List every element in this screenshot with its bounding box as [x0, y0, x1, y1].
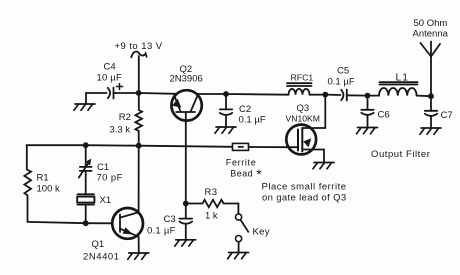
capacitor C4	[108, 84, 123, 99]
svg-text:10 µF: 10 µF	[97, 72, 122, 83]
label RFC1	[291, 73, 314, 83]
node E antenna junction	[428, 93, 434, 99]
resistor R3	[186, 200, 239, 207]
svg-text:0.1 µF: 0.1 µF	[147, 226, 176, 237]
wire Q2 base down	[185, 112, 187, 204]
wire osc loop bottom	[28, 222, 86, 223]
ground under C3	[175, 240, 196, 246]
label R2 value	[110, 112, 131, 136]
svg-text:2N4401: 2N4401	[83, 251, 120, 262]
svg-text:Ferrite: Ferrite	[226, 158, 257, 168]
ground under key	[228, 253, 249, 259]
node A supply junction	[136, 90, 142, 96]
resistor R2	[135, 93, 142, 146]
svg-text:C2: C2	[239, 104, 251, 115]
label +9 to 13 V	[115, 41, 163, 52]
node G keying junction	[183, 201, 189, 207]
svg-text:X1: X1	[100, 195, 112, 206]
node B	[223, 91, 229, 97]
node F keyline junction	[136, 143, 142, 149]
ground under C2	[215, 127, 236, 133]
wire osc loop top left	[27, 144, 86, 146]
svg-text:R2: R2	[119, 112, 131, 123]
inductor RFC1	[287, 83, 312, 95]
wire node D to L1	[368, 95, 380, 97]
label L1	[396, 72, 409, 83]
wire C4 to node A	[114, 92, 139, 94]
inductor L1	[379, 82, 418, 95]
wire node I to Q1 base	[86, 222, 113, 224]
svg-text:C5: C5	[337, 66, 349, 77]
crystal X1	[77, 194, 94, 222]
label C5 value	[328, 66, 355, 88]
capacitor C2	[220, 94, 232, 127]
node D	[365, 93, 371, 99]
svg-text:50 Ohm: 50 Ohm	[414, 18, 448, 29]
ground G1 left input	[74, 93, 95, 110]
label C2 value	[239, 104, 266, 126]
svg-text:C3: C3	[164, 214, 176, 225]
label X1	[100, 195, 112, 206]
capacitor C6	[361, 96, 373, 128]
svg-text:C7: C7	[441, 110, 453, 121]
label Q2 2N3906	[170, 64, 203, 85]
node H osc top junction	[83, 142, 89, 148]
capacitor C1 variable	[79, 145, 92, 194]
svg-text:Q1: Q1	[92, 239, 105, 250]
antenna 50 Ohm	[421, 42, 441, 97]
svg-text:R1: R1	[37, 172, 49, 183]
ground under Q1	[128, 253, 149, 259]
wire node C to C5	[325, 94, 340, 96]
label C4 value	[97, 62, 122, 84]
label C1 value	[97, 162, 123, 184]
capacitor C5	[341, 90, 347, 101]
ground under Q3 source	[313, 163, 334, 169]
resistor R1	[24, 145, 31, 222]
switch Key	[236, 214, 249, 253]
svg-text:C6: C6	[378, 110, 390, 121]
capacitor C3	[180, 204, 193, 240]
wire Q1 collector up to node F	[138, 146, 140, 213]
label Ferrite Bead	[226, 158, 262, 182]
wire Q2 collector to node B	[198, 93, 227, 95]
svg-text:+9 to 13 V: +9 to 13 V	[115, 41, 163, 52]
svg-text:Place small ferrite: Place small ferrite	[262, 181, 347, 192]
svg-text:RFC1: RFC1	[291, 73, 314, 83]
svg-text:2N3906: 2N3906	[170, 74, 203, 85]
label Output Filter	[371, 149, 430, 160]
ferrite bead	[233, 143, 249, 150]
svg-text:1 k: 1 k	[205, 211, 218, 222]
label C7	[441, 110, 453, 121]
wire node A to Q2 emitter	[139, 92, 176, 95]
svg-text:0.1 µF: 0.1 µF	[328, 77, 355, 88]
wire ground to C4	[86, 92, 107, 94]
svg-text:L1: L1	[396, 72, 409, 83]
ground under C6	[357, 128, 378, 134]
label R3 value	[205, 187, 218, 222]
wire node B to RFC1	[226, 93, 289, 96]
svg-text:R3: R3	[205, 187, 218, 198]
svg-text:C4: C4	[104, 62, 116, 73]
svg-text:Bead: Bead	[230, 169, 253, 179]
wire RFC1 to node C	[310, 94, 326, 96]
transistor Q2	[171, 90, 201, 120]
label R1 value	[37, 172, 60, 194]
svg-text:*: *	[256, 166, 262, 182]
label C6	[378, 110, 390, 121]
supply line +9 to 13 V	[131, 52, 146, 93]
svg-text:70 pF: 70 pF	[97, 173, 123, 184]
svg-text:0.1 µF: 0.1 µF	[239, 114, 266, 125]
wire R3 to key	[237, 204, 239, 214]
ground under C7	[420, 128, 441, 134]
capacitor C7	[425, 96, 437, 128]
svg-text:3.3 k: 3.3 k	[110, 125, 131, 136]
node C drain junction	[322, 92, 328, 98]
label Q1 2N4401	[83, 239, 120, 262]
svg-text:Output Filter: Output Filter	[371, 149, 430, 160]
wire L1 to node E	[417, 95, 431, 98]
svg-text:VN10KM: VN10KM	[286, 114, 320, 124]
label placement note	[262, 181, 347, 203]
wire node F to ferrite bead	[139, 146, 233, 147]
transistor Q3 VN10KM mosfet	[286, 95, 325, 163]
label Key	[253, 226, 270, 237]
transistor Q1	[112, 208, 143, 239]
label 50 Ohm Antenna	[413, 18, 449, 40]
wire Q1 emitter to ground	[138, 237, 140, 253]
svg-text:Q3: Q3	[297, 103, 310, 114]
svg-text:Antenna: Antenna	[413, 29, 449, 40]
svg-text:Key: Key	[253, 226, 270, 237]
svg-text:C1: C1	[97, 162, 109, 173]
svg-text:on gate lead of Q3: on gate lead of Q3	[262, 192, 346, 203]
wire osc node to node F	[86, 144, 139, 147]
label Q3 VN10KM	[286, 103, 320, 124]
svg-text:100 k: 100 k	[37, 183, 60, 194]
wire C5 to node D	[347, 94, 368, 96]
label C3 value	[147, 214, 176, 237]
node I osc bottom junction	[83, 220, 89, 226]
wire ferrite bead to Q3 gate	[249, 146, 287, 148]
